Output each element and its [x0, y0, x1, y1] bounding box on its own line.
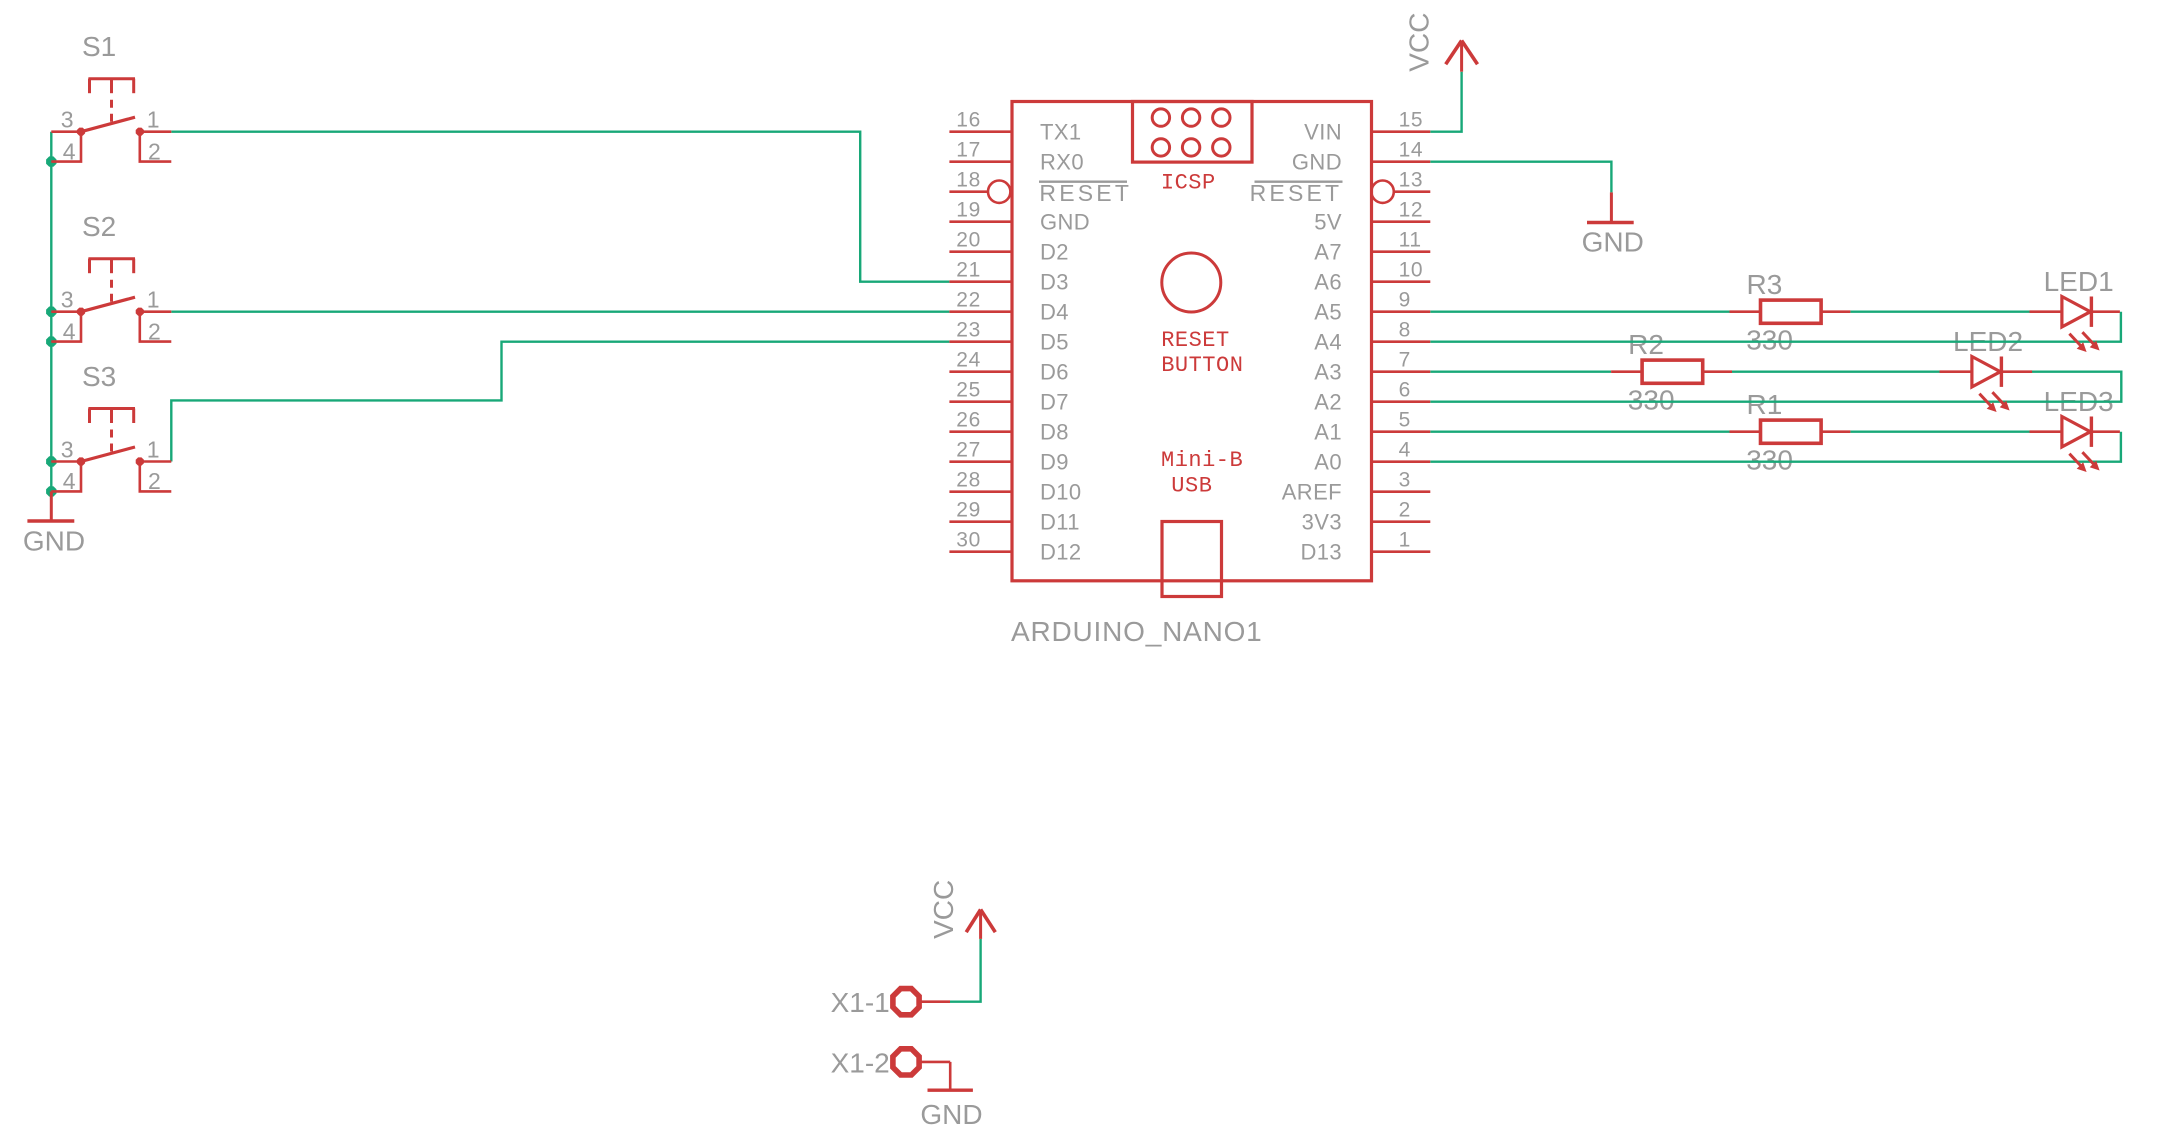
- pin 27 D9 (left) stub: [949, 460, 1012, 463]
- svg-text:D9: D9: [1040, 450, 1069, 475]
- wire A5 (pin 9) to R3: [1430, 311, 1729, 313]
- pin 29 D11 (left) stub: [949, 520, 1012, 523]
- svg-text:A1: A1: [1314, 420, 1342, 445]
- svg-text:20: 20: [956, 229, 981, 252]
- svg-text:18: 18: [956, 169, 981, 192]
- LED LED3: [2030, 417, 2120, 473]
- ground symbol (pin 14): [1587, 192, 1634, 222]
- svg-text:6: 6: [1399, 379, 1411, 402]
- wire R1 to LED3: [1850, 431, 2029, 433]
- supply symbol VCC (bottom): [966, 910, 995, 939]
- svg-text:330: 330: [1746, 325, 1793, 356]
- svg-text:A2: A2: [1314, 390, 1342, 415]
- svg-text:17: 17: [956, 139, 981, 162]
- svg-text:5: 5: [1399, 409, 1411, 432]
- wire R2 to LED2: [1731, 371, 1939, 373]
- svg-text:R3: R3: [1747, 269, 1783, 300]
- svg-text:R2: R2: [1628, 329, 1664, 360]
- svg-text:ICSP: ICSP: [1161, 170, 1216, 195]
- wire X1-1 to VCC: [950, 939, 981, 1002]
- svg-text:12: 12: [1399, 199, 1424, 222]
- junction S1 pin 4: [46, 156, 56, 166]
- junction S2 pin 4: [46, 336, 56, 346]
- pin 9 A5 (right) stub: [1372, 310, 1431, 313]
- pin 14 GND (right) stub: [1372, 160, 1431, 163]
- svg-text:9: 9: [1399, 289, 1411, 312]
- supply symbol VCC (top): [1446, 41, 1478, 72]
- wire R3 to LED1: [1850, 311, 2029, 313]
- reset button circle: [1162, 253, 1221, 312]
- svg-text:1: 1: [1399, 529, 1411, 552]
- wire LED3 to A0 (pin 4): [1430, 432, 2121, 462]
- svg-text:GND: GND: [1040, 210, 1090, 235]
- svg-text:3: 3: [61, 287, 74, 313]
- svg-text:11: 11: [1399, 229, 1422, 252]
- LED LED2: [1940, 357, 2033, 413]
- svg-text:RESET: RESET: [1039, 180, 1132, 206]
- svg-text:1: 1: [147, 287, 160, 313]
- wire A3 (pin 7) to R2: [1430, 371, 1611, 373]
- svg-text:330: 330: [1746, 445, 1793, 476]
- svg-text:GND: GND: [23, 526, 85, 557]
- svg-text:X1-2: X1-2: [831, 1047, 890, 1078]
- svg-text:15: 15: [1399, 109, 1424, 132]
- svg-text:13: 13: [1399, 169, 1424, 192]
- pushbutton switch S2: [51, 259, 171, 342]
- svg-text:VIN: VIN: [1304, 120, 1342, 145]
- pin 16 TX1 (left) stub: [949, 130, 1012, 133]
- pin 10 A6 (right) stub: [1372, 280, 1431, 283]
- wire S3 pin1 to D5 (pin 23): [171, 342, 949, 462]
- svg-text:21: 21: [956, 259, 981, 282]
- svg-text:A4: A4: [1314, 330, 1342, 355]
- svg-text:X1-1: X1-1: [831, 987, 890, 1018]
- LED LED1: [2030, 297, 2120, 353]
- svg-text:RESET: RESET: [1250, 180, 1343, 206]
- svg-text:27: 27: [956, 439, 981, 462]
- pin 4 A0 (right) stub: [1372, 460, 1431, 463]
- pin name RESET (pin 13): [1250, 180, 1343, 206]
- connector pad X1-1: [893, 989, 950, 1015]
- svg-text:A6: A6: [1314, 270, 1342, 295]
- svg-text:10: 10: [1399, 259, 1424, 282]
- svg-text:RX0: RX0: [1040, 150, 1084, 175]
- ICSP header block: [1133, 102, 1253, 163]
- svg-text:A5: A5: [1314, 300, 1342, 325]
- svg-text:14: 14: [1399, 139, 1424, 162]
- ground symbol (X1-2): [928, 1062, 973, 1090]
- pin 30 D12 (left) stub: [949, 550, 1012, 553]
- svg-text:3: 3: [61, 437, 74, 463]
- svg-text:24: 24: [956, 349, 981, 372]
- pin 20 D2 (left) stub: [949, 250, 1012, 253]
- svg-text:26: 26: [956, 409, 981, 432]
- svg-text:D3: D3: [1040, 270, 1069, 295]
- pushbutton switch S1: [51, 79, 171, 162]
- pin 18 RESET (left) stub: [949, 181, 1010, 203]
- svg-text:29: 29: [956, 499, 981, 522]
- svg-text:TX1: TX1: [1040, 120, 1082, 145]
- pin 6 A2 (right) stub: [1372, 400, 1431, 403]
- wire A1 (pin 5) to R1: [1430, 431, 1729, 433]
- junction S3 pin 4: [46, 486, 56, 496]
- svg-text:1: 1: [147, 437, 160, 463]
- pushbutton switch S3: [51, 409, 171, 492]
- pin name RESET (pin 18): [1039, 180, 1132, 206]
- pin 23 D5 (left) stub: [949, 340, 1012, 343]
- svg-text:A3: A3: [1314, 360, 1342, 385]
- svg-text:Mini-B: Mini-B: [1161, 448, 1243, 473]
- svg-text:D2: D2: [1040, 240, 1069, 265]
- svg-text:A7: A7: [1314, 240, 1342, 265]
- wire LED1 to A4 (pin 8): [1430, 312, 2121, 342]
- pin 12 5V (right) stub: [1372, 220, 1431, 223]
- pin 26 D8 (left) stub: [949, 430, 1012, 433]
- wire VIN (pin 15) to VCC: [1430, 72, 1461, 132]
- svg-text:VCC: VCC: [1404, 13, 1435, 72]
- junction S2 pin 3: [46, 307, 56, 317]
- pin 28 D10 (left) stub: [949, 490, 1012, 493]
- resistor R2: [1611, 360, 1732, 383]
- svg-text:22: 22: [956, 289, 981, 312]
- svg-text:D4: D4: [1040, 300, 1069, 325]
- svg-text:30: 30: [956, 529, 981, 552]
- pin 24 D6 (left) stub: [949, 370, 1012, 373]
- svg-text:GND: GND: [1292, 150, 1342, 175]
- pin 21 D3 (left) stub: [949, 280, 1012, 283]
- pin 5 A1 (right) stub: [1372, 430, 1431, 433]
- pin 25 D7 (left) stub: [949, 400, 1012, 403]
- svg-text:BUTTON: BUTTON: [1161, 353, 1243, 378]
- junction S3 pin 3: [46, 456, 56, 466]
- svg-text:23: 23: [956, 319, 981, 342]
- svg-text:R1: R1: [1747, 389, 1783, 420]
- svg-text:28: 28: [956, 469, 981, 492]
- resistor R3: [1730, 300, 1851, 323]
- svg-text:19: 19: [956, 199, 981, 222]
- pin 8 A4 (right) stub: [1372, 340, 1431, 343]
- ground symbol (left, below S3): [27, 491, 74, 521]
- svg-text:3: 3: [1399, 469, 1411, 492]
- Arduino Nano module ARDUINO_NANO1 body: [1012, 102, 1372, 581]
- label Mini-B USB: [1161, 448, 1243, 498]
- connector pad X1-2: [893, 1049, 950, 1075]
- wire S2 pin1 to D4 (pin 22): [171, 311, 949, 313]
- svg-text:7: 7: [1399, 349, 1411, 372]
- svg-text:VCC: VCC: [928, 880, 959, 939]
- svg-text:D5: D5: [1040, 330, 1069, 355]
- svg-text:D12: D12: [1040, 540, 1082, 565]
- pin 3 AREF (right) stub: [1372, 490, 1431, 493]
- svg-text:2: 2: [1399, 499, 1411, 522]
- pin 15 VIN (right) stub: [1372, 130, 1431, 133]
- svg-text:16: 16: [956, 109, 981, 132]
- svg-text:ARDUINO_NANO1: ARDUINO_NANO1: [1011, 616, 1263, 647]
- svg-text:5V: 5V: [1314, 210, 1342, 235]
- pin 2 3V3 (right) stub: [1372, 520, 1431, 523]
- svg-text:S3: S3: [82, 361, 116, 392]
- svg-text:3: 3: [61, 107, 74, 133]
- svg-text:4: 4: [1399, 439, 1411, 462]
- svg-text:D8: D8: [1040, 420, 1069, 445]
- pin 7 A3 (right) stub: [1372, 370, 1431, 373]
- wire GND net (left vertical bus): [50, 132, 52, 492]
- USB connector box: [1162, 522, 1222, 597]
- svg-text:S1: S1: [82, 31, 116, 62]
- svg-text:D10: D10: [1040, 480, 1082, 505]
- svg-text:LED1: LED1: [2044, 266, 2114, 297]
- svg-text:330: 330: [1628, 385, 1675, 416]
- pin 22 D4 (left) stub: [949, 310, 1012, 313]
- svg-text:RESET: RESET: [1161, 328, 1230, 353]
- wire LED2 to A2 (pin 6): [1430, 372, 2121, 402]
- resistor R1: [1730, 420, 1851, 443]
- pin 19 GND (left) stub: [949, 220, 1012, 223]
- svg-text:8: 8: [1399, 319, 1411, 342]
- pin 13 RESET (right) stub: [1371, 181, 1430, 203]
- wire GND (pin 14): [1430, 162, 1611, 193]
- svg-text:D6: D6: [1040, 360, 1069, 385]
- svg-text:GND: GND: [920, 1099, 982, 1130]
- svg-text:1: 1: [147, 107, 160, 133]
- svg-text:GND: GND: [1582, 227, 1644, 258]
- svg-text:D7: D7: [1040, 390, 1069, 415]
- pin 17 RX0 (left) stub: [949, 160, 1012, 163]
- label RESET BUTTON: [1161, 328, 1243, 378]
- svg-text:D13: D13: [1300, 540, 1342, 565]
- svg-text:AREF: AREF: [1282, 480, 1342, 505]
- svg-text:3V3: 3V3: [1302, 510, 1342, 535]
- pin 11 A7 (right) stub: [1372, 250, 1431, 253]
- wire S1 pin1 to D3 (pin 21): [171, 132, 949, 282]
- pin 1 D13 (right) stub: [1372, 550, 1431, 553]
- svg-text:USB: USB: [1171, 473, 1212, 498]
- svg-text:S2: S2: [82, 211, 116, 242]
- svg-text:D11: D11: [1040, 510, 1080, 535]
- svg-text:25: 25: [956, 379, 981, 402]
- svg-text:A0: A0: [1314, 450, 1342, 475]
